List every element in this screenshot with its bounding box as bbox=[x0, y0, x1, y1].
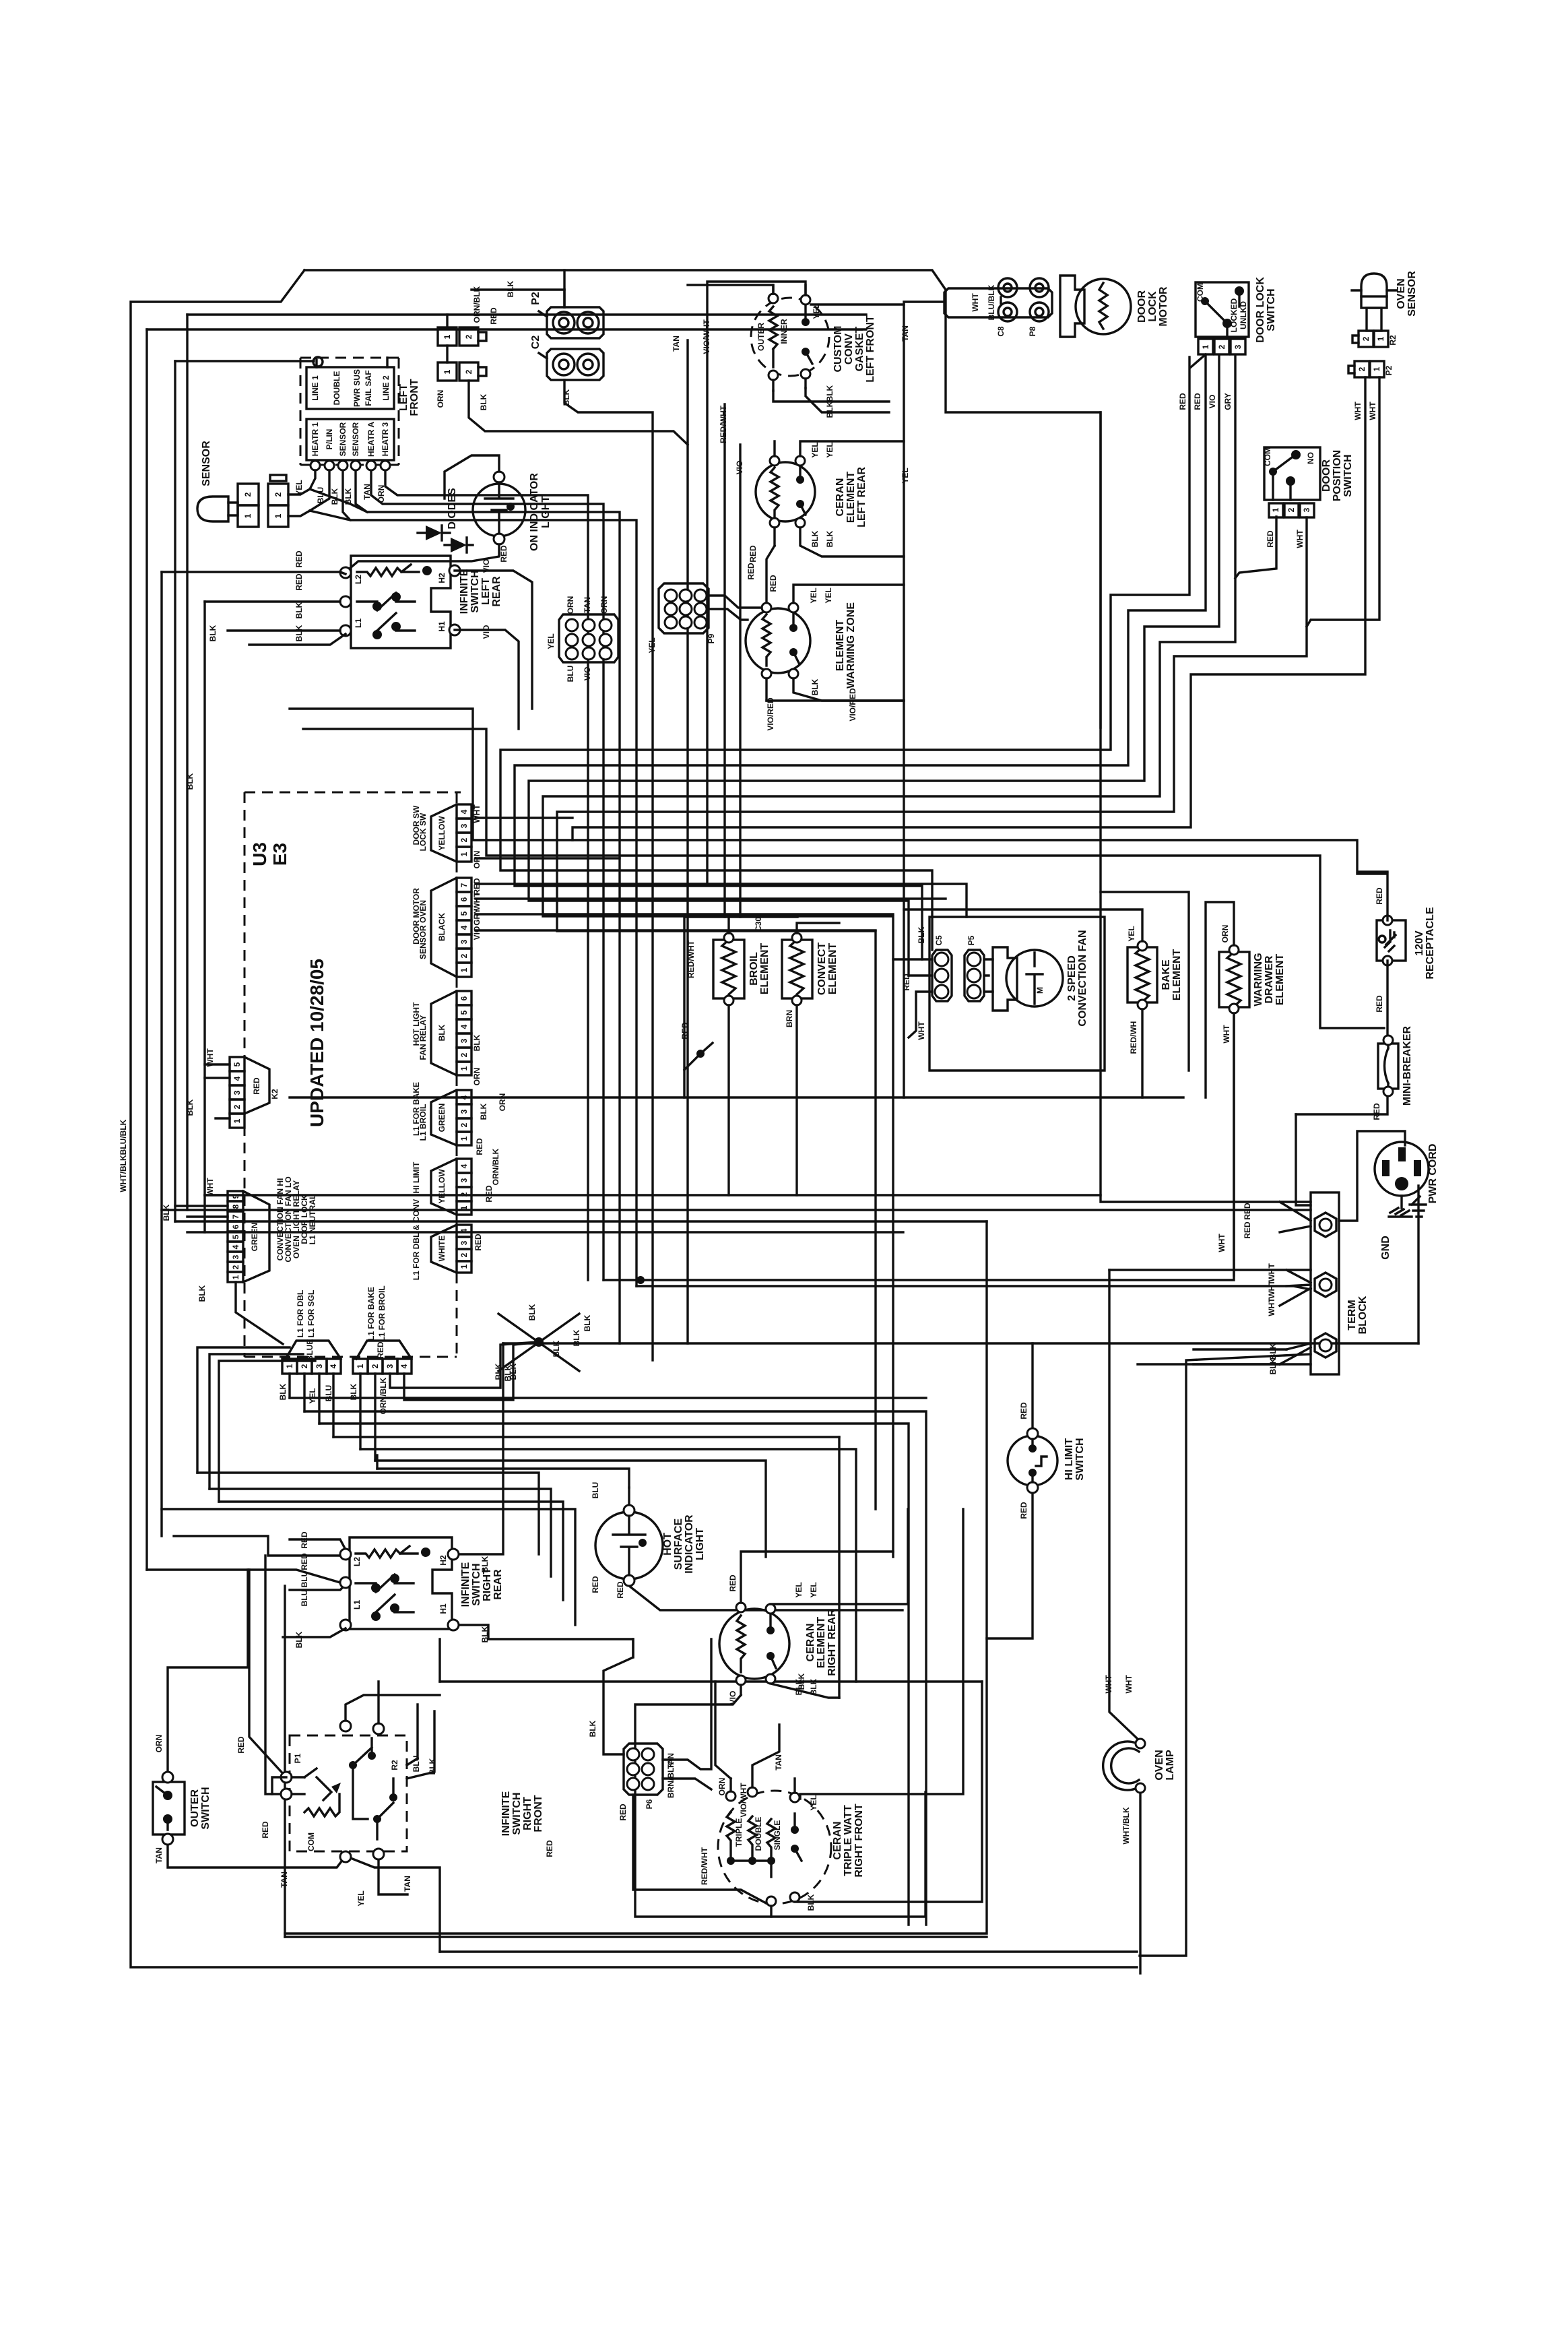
svg-text:WHT: WHT bbox=[917, 1021, 926, 1040]
bake element bbox=[904, 910, 1157, 1097]
hi limit switch bbox=[1008, 1428, 1057, 1493]
svg-text:BLK: BLK bbox=[1268, 1343, 1278, 1360]
svg-text:YEL: YEL bbox=[794, 1582, 804, 1597]
svg-text:L1: L1 bbox=[352, 1600, 362, 1609]
ceran triple watt right front (dashed circle) bbox=[718, 1787, 831, 1906]
wire: bottom-left bundle 4 bbox=[333, 1436, 839, 1438]
diode D2 bbox=[445, 538, 473, 552]
svg-text:BLUE: BLUE bbox=[305, 1339, 315, 1362]
svg-text:3: 3 bbox=[459, 1178, 469, 1182]
svg-text:1: 1 bbox=[1376, 336, 1385, 341]
svg-text:2: 2 bbox=[464, 334, 473, 339]
connector P2 plug bbox=[539, 307, 603, 338]
svg-text:C2: C2 bbox=[530, 336, 542, 350]
wire: BLK to L1 bbox=[228, 629, 340, 631]
svg-text:PWR SUS: PWR SUS bbox=[352, 369, 362, 407]
svg-text:L1 FOR BROIL: L1 FOR BROIL bbox=[377, 1285, 387, 1341]
door lock motor bbox=[1060, 276, 1131, 337]
svg-text:INDICATOR: INDICATOR bbox=[684, 1514, 695, 1574]
svg-text:BLK: BLK bbox=[162, 1204, 171, 1221]
svg-text:2: 2 bbox=[464, 369, 473, 374]
svg-text:TAN: TAN bbox=[403, 1876, 412, 1892]
wire: door lock RED2 chain s4 to fan RED bbox=[515, 355, 1206, 959]
svg-text:1: 1 bbox=[273, 513, 283, 518]
wire: right rear switch H1 BLK down bbox=[453, 1625, 633, 1657]
svg-text:BLK: BLK bbox=[797, 1673, 806, 1690]
svg-text:LOCKED: LOCKED bbox=[1229, 298, 1239, 332]
wire: J1 ORN line bbox=[476, 857, 620, 859]
wire: BLK short at P2 top bbox=[471, 288, 564, 290]
svg-text:GND: GND bbox=[1380, 1236, 1392, 1260]
wire: BLU second bbox=[290, 1585, 346, 1590]
connector P4 RED 4-pin bbox=[353, 1341, 412, 1374]
connector C5 bbox=[932, 950, 952, 1001]
svg-text:YEL: YEL bbox=[810, 442, 820, 457]
svg-text:VIO/WHT: VIO/WHT bbox=[739, 1783, 748, 1818]
120V receptacle bbox=[1357, 874, 1406, 1040]
svg-text:BLK: BLK bbox=[1268, 1358, 1278, 1374]
svg-text:GREEN: GREEN bbox=[250, 1223, 259, 1252]
wire: oven sensor WHT chain s8 bbox=[573, 377, 1365, 840]
svg-text:UPDATED 10/28/05: UPDATED 10/28/05 bbox=[306, 959, 327, 1127]
svg-text:5: 5 bbox=[459, 1010, 469, 1015]
svg-text:WHT: WHT bbox=[205, 1178, 215, 1197]
svg-text:RED: RED bbox=[1266, 530, 1275, 548]
svg-text:P2: P2 bbox=[1384, 365, 1394, 375]
svg-text:7: 7 bbox=[231, 1214, 240, 1219]
relay box heater outputs bbox=[306, 419, 394, 460]
svg-text:ORN: ORN bbox=[599, 596, 609, 614]
svg-text:INFINITE: INFINITE bbox=[459, 569, 470, 614]
wire: bottom-left bundle 2 bbox=[304, 1411, 926, 1925]
wire: RED down to pot bbox=[265, 1556, 286, 1794]
control board U3/E3 dashed outline bbox=[244, 792, 461, 1357]
wire: P3 pin drops bbox=[290, 1374, 333, 1437]
wire: left rails turning right 1 bbox=[162, 1209, 1311, 1211]
wire: BLU lead bbox=[310, 470, 329, 511]
oven sensor probe bbox=[1352, 274, 1396, 331]
svg-text:2 SPEED: 2 SPEED bbox=[1066, 955, 1078, 1001]
wire: right front top pins up bbox=[346, 1682, 440, 1723]
wire: door lock RED chain s3 to fan BLK bbox=[500, 357, 1189, 950]
svg-text:RED/WHT: RED/WHT bbox=[719, 405, 728, 443]
svg-text:BLK: BLK bbox=[506, 280, 515, 297]
svg-text:P8: P8 bbox=[1028, 326, 1037, 336]
svg-text:3: 3 bbox=[459, 823, 469, 828]
wire: WHT bus into term block bbox=[636, 1286, 1311, 1289]
wire: WHT chain to oven lamp top bbox=[1109, 1269, 1311, 1271]
wire: lead BLK2 long run bbox=[356, 470, 620, 1343]
svg-text:DOUBLE: DOUBLE bbox=[332, 371, 341, 406]
svg-text:BROIL: BROIL bbox=[748, 952, 760, 986]
oven temp sensor bulb bbox=[197, 497, 238, 521]
svg-text:4: 4 bbox=[232, 1076, 242, 1081]
wire: second bundle line 4 bbox=[162, 1509, 575, 1625]
outer switch bbox=[153, 1772, 185, 1845]
svg-text:1: 1 bbox=[459, 967, 469, 972]
svg-text:ORN: ORN bbox=[1220, 925, 1230, 943]
svg-text:ORN: ORN bbox=[377, 485, 386, 503]
svg-text:1: 1 bbox=[285, 1364, 294, 1368]
pins: door position switch 1 2 3 bbox=[1269, 503, 1314, 517]
wire: RED drop to warming bbox=[766, 546, 775, 603]
wire: door position RED jumper bbox=[1235, 517, 1276, 578]
svg-text:YEL: YEL bbox=[546, 633, 556, 649]
wire: right rear switch H2 BLK to X node bbox=[453, 1343, 503, 1554]
svg-text:4: 4 bbox=[459, 1024, 469, 1029]
svg-text:C30: C30 bbox=[754, 917, 763, 932]
wire: door position WHT chain s7 bbox=[557, 517, 1307, 1509]
wire: triple watt top taps bbox=[731, 1725, 795, 1793]
wire: term nut1 RED from power cord bbox=[1296, 1114, 1311, 1205]
svg-text:CUSTOM: CUSTOM bbox=[832, 325, 844, 372]
svg-text:RED: RED bbox=[1178, 393, 1187, 410]
svg-text:VIO: VIO bbox=[1208, 395, 1217, 409]
svg-text:R2: R2 bbox=[1388, 335, 1398, 346]
svg-text:BRN/BLK: BRN/BLK bbox=[666, 1762, 676, 1798]
svg-text:1: 1 bbox=[1372, 366, 1381, 371]
svg-text:9: 9 bbox=[231, 1194, 240, 1199]
wire: pin1 diagonal to RED run bbox=[1191, 354, 1206, 367]
svg-text:RED: RED bbox=[252, 1077, 261, 1095]
svg-text:BLK: BLK bbox=[208, 625, 218, 641]
wire: rail 4 vertical bbox=[174, 361, 176, 1221]
wire: term BLK second bbox=[1194, 1363, 1311, 1365]
svg-text:POSITION: POSITION bbox=[1332, 450, 1343, 501]
svg-text:OUTER: OUTER bbox=[189, 1789, 201, 1827]
svg-text:LIGHT: LIGHT bbox=[540, 496, 552, 528]
svg-text:TAN: TAN bbox=[583, 597, 592, 613]
mini-breaker bbox=[1378, 1035, 1398, 1096]
svg-text:RED: RED bbox=[473, 1234, 483, 1251]
svg-text:RECEPTACLE: RECEPTACLE bbox=[1425, 907, 1436, 980]
svg-text:3: 3 bbox=[459, 939, 469, 944]
svg-text:CONV: CONV bbox=[843, 333, 855, 365]
svg-text:YEL: YEL bbox=[901, 468, 910, 483]
svg-text:WHT: WHT bbox=[1295, 530, 1305, 548]
pin stubs above relay top box bbox=[317, 358, 387, 367]
connector J4 GREEN 4-pin bbox=[412, 1082, 471, 1145]
svg-text:CONVECT: CONVECT bbox=[816, 943, 828, 995]
svg-text:BLU: BLU bbox=[324, 1385, 333, 1402]
wire: triple watt BLK right run bbox=[795, 1682, 982, 1902]
svg-text:BLK: BLK bbox=[294, 625, 304, 641]
svg-text:FRONT: FRONT bbox=[409, 379, 420, 416]
svg-text:BLK: BLK bbox=[294, 602, 304, 618]
svg-text:ELEMENT: ELEMENT bbox=[1171, 949, 1183, 1001]
svg-text:WHT: WHT bbox=[472, 804, 482, 823]
svg-text:CERAN: CERAN bbox=[832, 1822, 843, 1860]
svg-text:BLK: BLK bbox=[344, 488, 353, 505]
svg-text:BLK: BLK bbox=[583, 1314, 592, 1331]
svg-text:BLU/BLK: BLU/BLK bbox=[119, 1119, 128, 1155]
svg-text:LEFT FRONT: LEFT FRONT bbox=[865, 315, 876, 383]
oven element frame bbox=[684, 917, 797, 1097]
svg-text:ORN/BLK: ORN/BLK bbox=[491, 1148, 500, 1185]
wire: pwr cord into term area bbox=[1339, 1131, 1405, 1221]
svg-text:BLU: BLU bbox=[300, 1590, 309, 1607]
svg-text:P/LIN: P/LIN bbox=[325, 429, 334, 450]
svg-text:BLU/BLK: BLU/BLK bbox=[987, 284, 996, 320]
connector grid P6 3x3 bbox=[624, 1744, 663, 1795]
svg-text:HI LIMIT: HI LIMIT bbox=[412, 1161, 421, 1193]
wire: BLK lower from switch bbox=[249, 634, 346, 645]
svg-text:YEL: YEL bbox=[809, 587, 818, 603]
wire: VIO vertical bbox=[739, 445, 741, 917]
wires: Y merges into term nuts bbox=[1280, 1202, 1311, 1364]
svg-text:ORN: ORN bbox=[717, 1778, 727, 1796]
svg-text:SWITCH: SWITCH bbox=[511, 1792, 523, 1835]
svg-text:LEFT: LEFT bbox=[398, 384, 410, 411]
GND symbol bbox=[1410, 1197, 1426, 1217]
custom conv gasket left front element (dashed circle) bbox=[751, 294, 829, 380]
svg-text:1: 1 bbox=[459, 1264, 469, 1269]
svg-text:WHT: WHT bbox=[1222, 1025, 1231, 1044]
wire: right rear element RED top bbox=[741, 1552, 893, 1603]
wire: pair B down bbox=[469, 381, 688, 445]
node: red junction bbox=[696, 1050, 705, 1058]
svg-text:LAMP: LAMP bbox=[1165, 1750, 1176, 1781]
connector P2 pins (sensor) bbox=[1348, 361, 1384, 377]
svg-text:1: 1 bbox=[243, 513, 253, 518]
svg-text:YEL: YEL bbox=[647, 637, 657, 653]
svg-text:ELEMENT: ELEMENT bbox=[759, 943, 771, 995]
svg-text:WHT/BLK: WHT/BLK bbox=[1121, 1807, 1131, 1845]
svg-text:U3: U3 bbox=[249, 842, 270, 866]
svg-text:1: 1 bbox=[459, 1205, 469, 1210]
svg-text:2: 2 bbox=[459, 837, 469, 842]
fan assembly box bbox=[929, 917, 1105, 1071]
wire: YEL long vertical bbox=[904, 302, 944, 1097]
svg-text:CERAN: CERAN bbox=[805, 1624, 816, 1662]
wire: nut3 BLK line left bbox=[1138, 1349, 1286, 1364]
wire: custom top to TAN/VIOWHT bbox=[688, 282, 806, 323]
wire: rail 3 vertical bbox=[160, 572, 162, 1536]
wire: right rear element YEL tap bbox=[771, 1509, 908, 1604]
wire: BLU BLK drop wires bbox=[407, 1704, 434, 1779]
svg-text:K2: K2 bbox=[270, 1089, 280, 1099]
connector WHT/BLU-BLK header bbox=[944, 284, 1052, 320]
infinite switch right front dashed body bbox=[281, 1735, 407, 1851]
svg-text:5: 5 bbox=[232, 1062, 242, 1066]
wire: H1 to chain s2 bbox=[455, 630, 519, 729]
wire: oven lamp bottom wire bbox=[1139, 1793, 1141, 1973]
wire: control VIO line joins s7 bbox=[476, 929, 876, 931]
svg-text:2: 2 bbox=[243, 492, 253, 497]
svg-text:H2: H2 bbox=[437, 573, 447, 583]
svg-text:2: 2 bbox=[273, 492, 283, 497]
wire: warming top right wires bbox=[793, 585, 904, 603]
svg-text:SURFACE: SURFACE bbox=[673, 1518, 684, 1570]
wire: left rails turning right 3 bbox=[187, 1231, 903, 1233]
svg-text:2: 2 bbox=[1357, 366, 1367, 371]
wires: custom element taps bbox=[773, 285, 806, 391]
svg-text:BLK: BLK bbox=[472, 1034, 482, 1051]
svg-text:YELLOW: YELLOW bbox=[437, 816, 447, 851]
wire: left rails turning right 2 bbox=[175, 1220, 987, 1222]
wire: lamp top to bus bbox=[445, 455, 499, 499]
svg-text:VIO: VIO bbox=[728, 1691, 738, 1705]
svg-text:RED: RED bbox=[1375, 887, 1384, 905]
svg-text:WHT: WHT bbox=[1368, 402, 1377, 420]
convect element bbox=[782, 923, 839, 1195]
wire: staircase chain s1 to 120V receptacle bbox=[290, 709, 1387, 872]
connector R2 pins bbox=[1352, 331, 1388, 347]
wire: TAN long vertical bbox=[686, 340, 688, 1343]
wire: lead ORN long run bbox=[385, 470, 588, 1280]
svg-text:ELEMENT: ELEMENT bbox=[816, 1617, 827, 1669]
wire: sensor BLU diagonal join bbox=[310, 511, 350, 520]
svg-text:BLK: BLK bbox=[552, 1340, 561, 1357]
wire: bottom-left bundle 6 bbox=[375, 1461, 766, 1557]
svg-text:LEFT REAR: LEFT REAR bbox=[856, 467, 868, 528]
oven lamp bbox=[1103, 1739, 1145, 1793]
svg-text:GRY: GRY bbox=[472, 908, 482, 926]
svg-text:REAR: REAR bbox=[492, 1569, 504, 1600]
svg-text:WHT: WHT bbox=[1217, 1234, 1227, 1252]
svg-text:4: 4 bbox=[231, 1244, 240, 1249]
svg-text:BLK: BLK bbox=[185, 773, 195, 790]
svg-text:3: 3 bbox=[1233, 344, 1243, 349]
svg-text:H2: H2 bbox=[438, 1555, 448, 1566]
svg-text:HEATR 3: HEATR 3 bbox=[381, 422, 390, 456]
connector C2 plug bbox=[539, 349, 603, 380]
wire: control GRY line joins s6 bbox=[476, 913, 893, 915]
svg-text:1: 1 bbox=[356, 1364, 365, 1368]
svg-text:1: 1 bbox=[443, 369, 452, 374]
svg-text:INNER: INNER bbox=[779, 319, 789, 344]
svg-text:WARMING ZONE: WARMING ZONE bbox=[845, 602, 857, 689]
control board LEFT FRONT dashed box bbox=[300, 358, 399, 465]
wire: oven sensor WHT merge s9 bbox=[1307, 377, 1379, 627]
svg-text:L1 NEUTRAL: L1 NEUTRAL bbox=[308, 1194, 317, 1245]
wire: pot wiper to L4 bbox=[272, 1777, 286, 1794]
svg-text:GREEN: GREEN bbox=[437, 1104, 447, 1132]
svg-text:WHT: WHT bbox=[1267, 1280, 1276, 1299]
svg-text:BLK: BLK bbox=[479, 1103, 488, 1120]
pins: infinite switch left rear bbox=[340, 567, 351, 578]
door position switch box bbox=[1263, 447, 1320, 500]
svg-text:RED: RED bbox=[616, 1581, 625, 1599]
svg-text:BLK: BLK bbox=[825, 530, 835, 547]
svg-text:LIGHT: LIGHT bbox=[694, 1528, 706, 1560]
svg-text:6: 6 bbox=[459, 897, 469, 901]
element warming zone bbox=[746, 603, 810, 678]
svg-text:ELEMENT: ELEMENT bbox=[835, 620, 846, 672]
svg-text:TAN: TAN bbox=[672, 336, 681, 352]
svg-text:TRIPLE: TRIPLE bbox=[734, 1818, 744, 1847]
svg-text:3: 3 bbox=[232, 1090, 242, 1095]
wire: RED pair to infinite switch right rear L2 bbox=[174, 1536, 346, 1556]
svg-text:BLK: BLK bbox=[480, 1626, 490, 1642]
svg-text:RED: RED bbox=[1019, 1502, 1028, 1519]
wire: cluster bottom loop bbox=[766, 699, 904, 701]
svg-text:1: 1 bbox=[459, 1066, 469, 1071]
svg-text:BLU: BLU bbox=[591, 1482, 600, 1499]
svg-text:2: 2 bbox=[459, 1252, 469, 1257]
svg-text:P1: P1 bbox=[293, 1753, 302, 1763]
svg-text:4: 4 bbox=[459, 925, 469, 930]
svg-text:VIO: VIO bbox=[472, 926, 482, 940]
svg-text:4: 4 bbox=[329, 1364, 338, 1368]
svg-text:8: 8 bbox=[231, 1204, 240, 1209]
wire: BLU drop from switch area bbox=[376, 1455, 378, 1469]
wire: left rail RED to L2 bbox=[162, 572, 346, 574]
svg-text:RIGHT FRONT: RIGHT FRONT bbox=[853, 1804, 865, 1878]
wire: WHT bus with junction bbox=[603, 1009, 1234, 1280]
svg-text:H1: H1 bbox=[437, 621, 447, 632]
svg-text:4: 4 bbox=[399, 1364, 409, 1368]
term block body bbox=[1311, 1192, 1339, 1374]
svg-text:MINI-BREAKER: MINI-BREAKER bbox=[1402, 1025, 1413, 1106]
svg-text:SENSOR: SENSOR bbox=[201, 441, 212, 486]
svg-text:RED: RED bbox=[499, 545, 509, 563]
connector 1|2 pair B bbox=[438, 362, 486, 381]
svg-text:ORN: ORN bbox=[566, 596, 575, 614]
connector C8 circles bbox=[998, 278, 1017, 321]
wire: hot light BLU feed bbox=[377, 1469, 629, 1488]
svg-text:120V: 120V bbox=[1414, 930, 1425, 956]
svg-text:BLOCK: BLOCK bbox=[1357, 1296, 1369, 1334]
pins: right rear switch bbox=[340, 1549, 351, 1560]
wire: mini-breaker low RED to corner bbox=[1296, 1091, 1387, 1114]
wire: WHT vertical to oven lamp bbox=[1109, 1270, 1139, 1740]
wire: door lock VIO chain s5 to fan WHT bbox=[529, 355, 1219, 976]
svg-text:VIO: VIO bbox=[583, 667, 592, 681]
svg-text:BLK: BLK bbox=[197, 1285, 207, 1302]
wire: C2 BLK long run bbox=[564, 380, 653, 1360]
svg-text:1: 1 bbox=[1201, 344, 1210, 349]
svg-text:RED: RED bbox=[261, 1821, 270, 1839]
svg-text:ORN: ORN bbox=[472, 1068, 482, 1086]
wire: grid feeds bbox=[603, 1639, 711, 1789]
svg-text:RED: RED bbox=[489, 307, 498, 325]
connector J5 YELLOW2 4-pin bbox=[412, 1159, 471, 1215]
svg-text:2: 2 bbox=[459, 1122, 469, 1127]
svg-text:RED: RED bbox=[294, 550, 304, 568]
svg-text:2: 2 bbox=[1217, 344, 1227, 349]
node: LINE1 feed dot bbox=[313, 357, 323, 366]
wire: outer border left/top/bottom rail bbox=[131, 270, 1137, 1967]
wire: right rear element BLK taps bbox=[741, 1684, 839, 1698]
svg-text:GRY: GRY bbox=[1223, 393, 1233, 410]
wire: term BLK out bbox=[1140, 1354, 1311, 1956]
svg-text:BLK: BLK bbox=[349, 1383, 358, 1400]
wire: K1 BLK down-right bbox=[236, 1282, 283, 1344]
svg-text:P5: P5 bbox=[967, 935, 976, 945]
wire: P6 RED drop joins frame bbox=[838, 1437, 840, 1698]
svg-text:1: 1 bbox=[232, 1118, 242, 1123]
svg-text:RED: RED bbox=[294, 573, 304, 591]
svg-text:L1: L1 bbox=[354, 618, 363, 628]
svg-text:RED: RED bbox=[728, 1574, 738, 1592]
wire: rails stubs tops bbox=[197, 1347, 290, 1473]
wire: lead BLK1 long run bbox=[343, 470, 636, 1286]
wire: bottom-left P3/P4 bundle 1 bbox=[290, 1397, 926, 1399]
svg-text:LEFT: LEFT bbox=[480, 578, 492, 605]
svg-text:TAN: TAN bbox=[362, 484, 372, 500]
svg-text:ORN/BLK: ORN/BLK bbox=[472, 286, 482, 323]
svg-text:TERM: TERM bbox=[1346, 1300, 1358, 1330]
wire: hi-limit top RED bbox=[1031, 1343, 1033, 1428]
svg-text:BAKE: BAKE bbox=[1161, 959, 1172, 990]
svg-text:BLK: BLK bbox=[494, 1363, 503, 1380]
wire: RED/WHT vertical to broil bbox=[723, 404, 725, 917]
svg-text:2: 2 bbox=[459, 1192, 469, 1197]
svg-text:WHT: WHT bbox=[1104, 1675, 1113, 1694]
wire: rail 2 vertical bbox=[145, 329, 148, 1570]
svg-text:DOOR: DOOR bbox=[1136, 290, 1148, 323]
